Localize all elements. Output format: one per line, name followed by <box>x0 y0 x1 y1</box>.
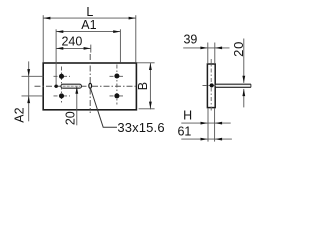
svg-text:B: B <box>136 82 150 90</box>
vertical centerline front view <box>89 54 91 113</box>
front view plate outline <box>43 63 136 110</box>
dimension 20 side view <box>243 39 245 83</box>
hole bottom-left <box>59 93 64 98</box>
dimension B <box>137 63 155 110</box>
dimension 39 <box>183 43 229 64</box>
hole column centerline left <box>61 67 63 105</box>
hole row centerline bottom <box>22 95 125 97</box>
dimension A2 <box>28 61 30 121</box>
svg-text:240: 240 <box>61 35 82 49</box>
pin <box>215 84 251 87</box>
svg-text:33x15.6: 33x15.6 <box>117 120 164 135</box>
dimension 61 <box>181 138 232 140</box>
slot <box>61 84 82 88</box>
svg-text:61: 61 <box>177 125 191 139</box>
hole column centerline right <box>116 65 118 105</box>
svg-text:39: 39 <box>183 32 197 46</box>
dimension A1 <box>56 29 120 85</box>
svg-text:20: 20 <box>231 41 246 57</box>
side view hole dot <box>210 83 214 87</box>
leader line 33x15.6 <box>90 88 117 127</box>
side view plate outline <box>207 64 215 108</box>
svg-text:H: H <box>183 108 192 122</box>
side view horizontal centerline <box>203 85 217 87</box>
hole top-right <box>114 73 119 78</box>
svg-text:A2: A2 <box>13 107 27 122</box>
center oval hole <box>89 83 92 88</box>
svg-text:A1: A1 <box>81 18 96 32</box>
hole row centerline top <box>22 75 125 77</box>
horizontal centerline front view <box>35 85 137 87</box>
dimension L <box>43 15 136 62</box>
hole top-left <box>59 74 64 79</box>
side view vertical centerline <box>210 59 212 113</box>
extension lines below side view <box>208 108 215 141</box>
hole bottom-right <box>114 93 119 98</box>
small hole left of slot <box>55 85 58 88</box>
svg-text:20: 20 <box>63 111 77 125</box>
dimension 20 front view <box>76 87 78 126</box>
dimension H <box>181 122 230 124</box>
dimension 240 <box>56 45 91 53</box>
